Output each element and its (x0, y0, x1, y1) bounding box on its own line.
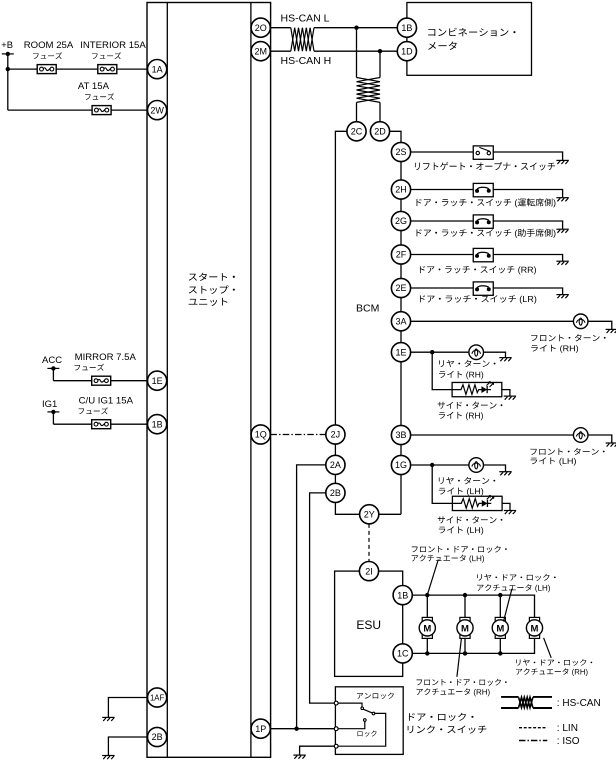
wire BCM pin 2F to door latch switch (RR) (411, 255, 563, 261)
pin unit pin 1B (148, 415, 167, 434)
lamp rear turn light (LH) (469, 458, 484, 473)
leader rear door lock actuator LH (504, 589, 512, 622)
wire 1Q to 2J (ISO dash-dot) (270, 434, 325, 436)
wire BCM pin 1G to rear turn light LH (411, 465, 506, 471)
pin unit pin 2W (148, 101, 167, 120)
lamp front turn light (RH) (573, 314, 588, 329)
switch lever (363, 709, 372, 713)
junction dot on HS-CAN L (354, 26, 358, 30)
label HS-CAN L (281, 13, 330, 25)
ground (door latch switch (passenger)) (556, 229, 568, 233)
ground (front turn light LH) (606, 443, 616, 447)
svg-text:ESU: ESU (356, 618, 381, 632)
start-stop unit box U1 (スタート・ストップ・ユニット) (147, 3, 271, 758)
svg-text:2Y: 2Y (364, 510, 375, 520)
pin unit pin 2D (370, 122, 389, 141)
leader front door lock actuator RH (457, 639, 462, 677)
wire 1G branch to side turn light LH (432, 465, 510, 510)
pin unit pin 2C (347, 122, 366, 141)
wire pin 1AF to ground (108, 698, 147, 718)
lamp rear turn light (RH) (469, 345, 484, 360)
wire BCM pin 3A to front turn light RH (411, 321, 612, 329)
pin unit pin 2B (column) (326, 483, 345, 502)
pin BCM pin 2E (391, 278, 410, 297)
svg-text:: ISO: : ISO (557, 736, 580, 747)
label rear turn light RH (439, 360, 495, 380)
label lock ロック (358, 731, 377, 737)
svg-text:2S: 2S (395, 147, 406, 157)
pin BCM pin 2S (391, 142, 410, 161)
ground (door latch switch (LR)) (556, 295, 568, 299)
pin unit pin 2B (148, 727, 167, 746)
svg-text:2M: 2M (254, 46, 267, 56)
legend LIN dashed (519, 723, 578, 734)
wire BCM pin 2S to liftgate opener switch (411, 152, 563, 160)
svg-text:BCM: BCM (356, 303, 379, 315)
terminal unlock side (334, 701, 338, 705)
fuse ROOM 25A (24, 40, 74, 74)
svg-text:IG1: IG1 (42, 399, 57, 410)
label liftgate opener switch (415, 162, 555, 170)
junction dot 1P/2A (294, 727, 298, 731)
label side turn light RH (438, 402, 503, 421)
lamp front turn light (LH) (573, 428, 588, 443)
wire HS-CAN H (2M to meter 1D) (270, 50, 397, 52)
svg-text:2F: 2F (396, 250, 407, 260)
meter label コンビネーション・メータ (428, 28, 515, 50)
combination meter box (コンビネーション・メータ) (407, 3, 532, 76)
svg-text:2W: 2W (150, 105, 164, 115)
ground (door lock link switch) (293, 755, 305, 759)
label front turn light RH (531, 334, 605, 353)
node ACC (42, 355, 62, 381)
pin unit pin 1AF (148, 688, 167, 707)
door lock link switch box (335, 687, 403, 755)
svg-text:1B: 1B (401, 23, 412, 33)
svg-text:1B: 1B (152, 419, 163, 429)
wire HS-CAN L (2O to meter 1B) (270, 27, 397, 29)
wire 2Y to 2I (LIN dashed) (368, 524, 370, 562)
motor M4 (door lock actuator) (526, 617, 542, 638)
fuse AT 15A (78, 81, 114, 115)
wire CAN H drop (379, 51, 381, 122)
wire AT fuse to pin 2W (8, 109, 148, 111)
svg-text:2B: 2B (330, 488, 341, 498)
terminal common (334, 727, 338, 731)
side turn light (LH): resistor and LED (452, 495, 502, 510)
wire BCM pin 3B to front turn light LH (411, 435, 612, 443)
svg-text:1E: 1E (152, 376, 163, 386)
pin ESU pin 2I (359, 562, 378, 581)
svg-text:+B: +B (1, 39, 13, 50)
svg-text:3B: 3B (395, 430, 406, 440)
junction dot +B branch (6, 67, 10, 71)
pin unit pin 2A (326, 455, 345, 474)
pin ESU pin 1C (393, 644, 412, 663)
pin BCM pin 1E (391, 343, 410, 362)
pin BCM pin 3A (391, 312, 410, 331)
wire lock terminal to ground (300, 746, 335, 755)
ground (pin 2B) (102, 756, 114, 760)
label door lock link switch (408, 713, 487, 734)
svg-text:ACC: ACC (42, 355, 62, 366)
svg-text:AT 15A: AT 15A (78, 81, 110, 92)
svg-text:ROOM 25A: ROOM 25A (24, 40, 74, 51)
fuse INTERIOR 15A (80, 40, 146, 74)
wire 2A to door lock link switch common (297, 465, 326, 729)
label door latch switch (LR) (420, 295, 536, 304)
svg-text:2I: 2I (365, 566, 373, 576)
wire BCM pin 2E to door latch switch (LR) (411, 288, 563, 294)
legend ISO dash-dot (519, 736, 580, 747)
junction dot 1G branch (430, 463, 434, 467)
node +B (1, 39, 14, 69)
wire +B down to AT fuse (7, 69, 9, 110)
label rear door lock actuator RH (516, 659, 592, 676)
svg-text:1Q: 1Q (255, 430, 267, 440)
svg-text:MIRROR 7.5A: MIRROR 7.5A (75, 352, 137, 363)
svg-text:2E: 2E (395, 283, 406, 293)
wire BCM pin 2H to door latch switch (driver) (411, 190, 563, 198)
svg-text:1E: 1E (395, 347, 406, 357)
svg-text:2O: 2O (255, 23, 267, 33)
pin ESU pin 1B (393, 586, 412, 605)
ground (pin 1AF) (102, 717, 114, 721)
pin unit pin 1Q (251, 425, 270, 444)
pin BCM pin 2H (391, 180, 410, 199)
junction dot motor 3 bottom (498, 638, 502, 655)
label rear turn light LH (439, 477, 495, 496)
wire BCM pin 1E to rear turn light RH (411, 352, 506, 357)
motor M3 (door lock actuator) (492, 617, 508, 638)
switch door latch switch (RR) (473, 248, 493, 261)
switch door latch switch (LR) (473, 282, 493, 295)
label front door lock actuator LH (412, 546, 507, 563)
svg-text:2A: 2A (330, 460, 341, 470)
junction dot 1E branch (430, 350, 434, 354)
wire ESU 1B bus (412, 595, 534, 617)
svg-text:: HS-CAN: : HS-CAN (557, 698, 601, 709)
svg-text:1D: 1D (401, 46, 413, 56)
ground (side turn light LH) (504, 511, 516, 515)
wire +B to pin 1A (8, 68, 148, 70)
fuse MIRROR 7.5A (75, 352, 137, 385)
label rear door lock actuator LH (477, 574, 556, 592)
switch liftgate opener switch (473, 146, 493, 159)
pin BCM pin 2F (391, 245, 410, 264)
label HS-CAN H (281, 55, 332, 67)
svg-text:C/U IG1 15A: C/U IG1 15A (79, 395, 134, 406)
svg-text:3A: 3A (395, 317, 406, 327)
label side turn light LH (438, 516, 503, 535)
switch contact unlock (361, 707, 364, 710)
pin BCM pin 1G (391, 455, 410, 474)
pin unit pin 1E (148, 371, 167, 390)
svg-text:2D: 2D (374, 127, 386, 137)
junction dot on HS-CAN H (378, 49, 382, 53)
node IG1 (42, 399, 59, 424)
label door latch switch (passenger) (416, 229, 555, 238)
pin meter pin 1B (397, 18, 416, 37)
motor M1 (door lock actuator) (419, 617, 435, 638)
side turn light (RH): resistor and LED (452, 382, 502, 397)
svg-text:INTERIOR 15A: INTERIOR 15A (80, 40, 146, 51)
pin unit pin 2J (326, 425, 345, 444)
svg-text:1B: 1B (397, 590, 408, 600)
svg-text:1C: 1C (397, 649, 409, 659)
junction dot motor 2 bottom (463, 638, 467, 655)
svg-text:2J: 2J (331, 430, 341, 440)
wire BCM pin 2G to door latch switch (passenger) (411, 221, 563, 229)
terminal lock side (334, 744, 338, 748)
ground (door latch switch (RR)) (556, 261, 568, 265)
svg-text:HS-CAN L: HS-CAN L (281, 13, 330, 25)
leader front door lock actuator LH (428, 560, 439, 595)
junction dot motor 1 bottom (425, 638, 429, 655)
svg-text:1AF: 1AF (150, 694, 165, 703)
leader rear door lock actuator RH (544, 638, 552, 658)
junction dot motor 1 top (425, 593, 429, 618)
wire 2C to BCM branch column (335, 131, 401, 514)
wire CAN L drop (356, 28, 358, 122)
junction dot motor 2 top (463, 593, 467, 618)
svg-text:1G: 1G (395, 460, 407, 470)
wire 1E branch to side turn light RH (432, 352, 510, 396)
pin unit pin 2M (251, 42, 270, 61)
switch internal wiring (338, 703, 386, 746)
label door latch switch (RR) (420, 266, 536, 275)
switch pivot (372, 712, 375, 715)
wire 2D to BCM pin column (390, 131, 401, 514)
svg-text:2G: 2G (395, 216, 407, 226)
ground (rear turn light RH) (499, 358, 511, 362)
twisted pair symbol (vertical) (357, 78, 381, 103)
ESU box (335, 571, 403, 676)
label unlock アンロック (357, 693, 394, 700)
switch contact lock (364, 719, 367, 722)
twisted pair symbol (horizontal) (291, 28, 314, 52)
unit label スタート・ストップ・ユニット (189, 273, 235, 306)
switch door latch switch (passenger) (473, 215, 493, 228)
svg-text:HS-CAN H: HS-CAN H (281, 55, 332, 67)
fuse C/U IG1 15A (79, 395, 134, 428)
wire 2B to unlock terminal (310, 493, 335, 703)
ground (liftgate opener switch) (556, 160, 568, 164)
pin BCM pin 3B (391, 425, 410, 444)
svg-text:2B: 2B (152, 732, 163, 742)
pin unit pin 1P (251, 719, 270, 738)
pin unit pin 1A (148, 60, 167, 79)
legend HS-CAN symbol (501, 697, 601, 709)
ground (door latch switch (driver)) (556, 198, 568, 202)
switch door latch switch (driver) (473, 183, 493, 196)
motor M2 (door lock actuator) (457, 617, 473, 638)
svg-text:1A: 1A (152, 64, 163, 74)
pin BCM pin 2G (391, 211, 410, 230)
ground (side turn light RH) (504, 396, 516, 400)
ground (front turn light RH) (606, 329, 616, 333)
wire IG1 to pin 1B (53, 423, 147, 425)
svg-text:: LIN: : LIN (557, 723, 578, 734)
wire ESU 1C bus (412, 638, 534, 653)
svg-text:1P: 1P (255, 724, 266, 734)
label door latch switch (driver) (416, 198, 555, 207)
wire pin 2B to ground (108, 737, 147, 755)
pin unit pin 2O (251, 18, 270, 37)
pin meter pin 1D (397, 42, 416, 61)
pin unit pin 2Y (360, 505, 379, 524)
junction dot motor 3 top (498, 593, 502, 618)
wire pin 1P to switch (270, 728, 334, 730)
ground (rear turn light LH) (499, 472, 511, 476)
wire ACC to pin 1E (53, 380, 147, 382)
svg-text:2H: 2H (395, 185, 407, 195)
label BCM (356, 303, 379, 315)
svg-text:2C: 2C (351, 127, 363, 137)
label front door lock actuator RH (416, 679, 506, 697)
label front turn light LH (530, 448, 604, 466)
